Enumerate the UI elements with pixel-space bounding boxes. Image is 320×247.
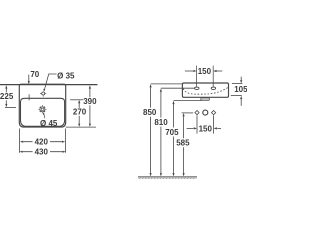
svg-text:810: 810 [154, 118, 168, 127]
svg-text:705: 705 [165, 128, 179, 137]
svg-text:150: 150 [198, 67, 212, 76]
svg-text:850: 850 [143, 108, 157, 117]
svg-text:105: 105 [234, 85, 247, 94]
svg-text:Ø 35: Ø 35 [57, 71, 75, 80]
svg-text:150: 150 [199, 124, 213, 133]
svg-text:225: 225 [0, 92, 14, 101]
svg-text:390: 390 [83, 97, 97, 106]
svg-text:70: 70 [30, 70, 39, 79]
svg-text:420: 420 [35, 138, 49, 147]
svg-text:270: 270 [73, 108, 87, 117]
svg-text:430: 430 [35, 148, 49, 157]
svg-text:Ø 45: Ø 45 [40, 119, 58, 128]
svg-text:585: 585 [176, 139, 190, 148]
